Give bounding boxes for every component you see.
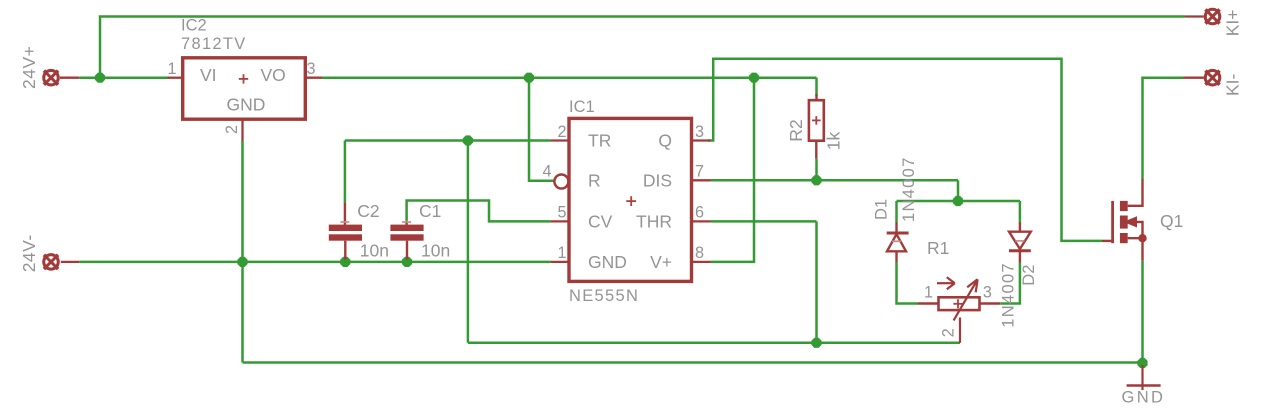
wire CV to C1 [407,201,551,222]
svg-text:VI: VI [200,65,217,85]
svg-text:2: 2 [557,123,566,141]
C1 top plate [390,225,423,231]
R1 pin 3 stub [980,302,1001,304]
wire KI- pad stub [1184,77,1204,79]
IC2 body [183,58,306,119]
svg-text:Q1: Q1 [1160,211,1183,231]
svg-text:KI-: KI- [1223,73,1243,96]
wire KI+ top rail [100,17,1185,78]
svg-text:4: 4 [542,163,551,181]
D2 origin tick [1015,240,1024,242]
C1 bottom plate [390,234,423,240]
svg-text:1: 1 [167,60,176,78]
junction THR-wiper [811,338,821,348]
C2 bottom pin [344,241,346,260]
R1 pin 1 stub [918,302,939,304]
junction 24V+ [95,73,105,83]
svg-text:3: 3 [695,123,704,141]
wire 12V rail VO to R2 [322,76,817,79]
C2 origin tick [340,221,349,223]
R2 origin cross [812,116,821,125]
svg-text:D1: D1 [873,199,891,220]
svg-text:NE555N: NE555N [569,287,639,305]
D1 origin tick [892,240,901,242]
svg-text:3: 3 [983,284,992,302]
svg-text:2: 2 [223,125,241,134]
wire bottom GND rail [243,361,1143,364]
wire THR pin 6 [711,220,817,223]
svg-text:24V-: 24V- [19,234,39,272]
R1 body [939,297,980,310]
R1 origin cross [953,299,962,308]
svg-text:V+: V+ [650,252,672,272]
wire KI- to drain [1143,78,1184,179]
transistor Q1 n-channel MOSFET [1102,179,1183,261]
wire DIS pin 7 [711,179,959,182]
wire IC2 GND down leg [241,141,244,363]
wire KI+ pad stub [1185,15,1204,17]
svg-text:GND: GND [588,252,627,272]
wire source to ground [1141,261,1144,364]
wire 24V+ pad to junction [60,77,79,79]
D1 cathode bar [887,232,909,235]
svg-text:TR: TR [588,131,611,151]
IC1 pin 5 CV stub [551,220,569,222]
wire D2 bottom to R1 pin 3 [1000,263,1020,304]
D1 cathode pin [895,222,897,233]
C1 top pin [405,221,407,226]
junction R2 bottom [811,175,821,185]
timer IC1 NE555N [542,98,710,305]
svg-text:10n: 10n [421,241,450,261]
Q1 channel blocks [1120,201,1128,211]
R2 bottom pin [815,141,817,159]
svg-text:C2: C2 [357,201,379,221]
svg-text:GND: GND [227,95,266,115]
R1 wiper arrow and pin 2 [954,279,978,343]
C2 top pin [344,202,346,225]
wire junction to IC2 pin 1 [79,76,169,79]
svg-text:7: 7 [695,163,704,181]
wire rail to reset pin 4 [529,78,554,181]
pad KI+ [1204,8,1221,25]
svg-text:1N4007: 1N4007 [900,156,918,222]
Q1 source junction dot [1138,234,1146,242]
junction C2 [340,257,350,267]
IC1 pin 3 Q stub [692,139,711,141]
wire TR-THR vertical link [467,141,470,343]
wire GND net horizontal [79,261,550,264]
wire TR pin 2 [345,139,551,142]
pad 24V- [43,254,60,271]
diode D2 1N4007 [1009,222,1031,263]
IC1 pin 8 V+ stub [692,261,711,263]
C1 bottom pin [406,241,408,260]
wire D1 top leg [895,201,898,222]
R1 adjust arrow [937,277,955,289]
IC2 pin 2 GND stub [241,119,243,141]
C2 bottom plate [329,234,362,240]
Q1 gate pin stub [1102,240,1113,242]
wire rail to V+ pin 8 [711,78,755,262]
IC1 pin 7 DIS stub [692,179,711,181]
pad 24V+ [43,69,60,86]
svg-text:C1: C1 [419,201,441,221]
svg-text:1k: 1k [824,131,844,150]
wire R2 top [815,78,818,96]
wire THR down leg [815,221,818,342]
svg-text:R2: R2 [786,119,806,141]
svg-text:1: 1 [557,244,566,262]
D1 anode pin [895,251,897,262]
svg-text:DIS: DIS [643,171,672,191]
svg-text:10n: 10n [360,241,389,261]
svg-text:KI+: KI+ [1223,10,1243,37]
svg-text:1: 1 [924,284,933,302]
svg-text:2: 2 [940,328,958,337]
svg-text:IC2: IC2 [181,17,207,35]
D2 anode pin [1019,222,1021,232]
C1 origin tick [402,221,411,223]
svg-text:VO: VO [261,65,286,85]
D2 cathode pin [1019,251,1021,263]
Q1 gate bar [1111,201,1114,243]
R2 body [809,100,824,141]
diode D1 1N4007 [887,222,909,262]
D2 anode triangle [1009,232,1031,249]
IC2 pin 3 VO stub [305,77,322,79]
svg-text:7812TV: 7812TV [181,35,247,53]
svg-text:THR: THR [636,212,672,232]
IC1 pin 2 TR stub [551,139,569,141]
svg-text:IC1: IC1 [569,98,595,116]
IC2 origin cross [239,74,248,83]
R2 top pin [815,94,817,100]
wire D2 top leg [1019,201,1022,222]
wire 24V- pad stub [61,261,79,263]
svg-text:D2: D2 [1020,265,1038,286]
IC1 body [569,118,692,281]
svg-text:24V+: 24V+ [19,46,39,89]
Q1 drain lead [1128,179,1143,206]
svg-text:R1: R1 [927,238,949,258]
svg-text:1N4007: 1N4007 [999,262,1017,328]
IC1 pin 4 inversion bubble [554,175,568,189]
junction diode top [953,196,963,206]
svg-text:R: R [588,171,601,191]
svg-text:6: 6 [695,204,704,222]
wire D1 bottom to R1 pin 1 [897,262,919,304]
C2 top plate [329,225,362,231]
svg-text:3: 3 [307,60,316,78]
junction TR node [463,135,473,145]
svg-text:CV: CV [588,212,613,232]
Q1 source lead [1128,238,1143,261]
svg-text:GND: GND [1122,389,1166,407]
IC1 origin cross [626,196,636,206]
svg-text:8: 8 [695,244,704,262]
ground symbol GND [1127,365,1161,390]
IC1 pin 6 THR stub [692,220,711,222]
ground bar [1127,384,1161,387]
pad KI- [1204,69,1221,86]
wire C2 top leg [344,141,347,203]
junction C1 [402,257,412,267]
capacitor C1 [390,201,450,261]
ground stem [1141,365,1143,390]
junction rail-V+ [749,73,759,83]
IC1 pin 1 GND stub [551,261,569,263]
D2 cathode bar [1009,249,1031,252]
svg-text:Q: Q [658,131,672,151]
wire timing node horizontal [468,342,960,345]
junction rail-reset [524,73,534,83]
IC2 pin 1 VI stub [168,77,183,79]
wire Q output to gate [708,59,1102,241]
D1 anode triangle [887,234,906,251]
trimpot R1 [918,238,1001,343]
resistor R2 [786,94,844,159]
wire D1-D2 top [897,200,1020,203]
voltage regulator IC2 7812TV [167,17,322,142]
wire R2 bottom to DIS net [815,159,818,181]
Q1 body arrow [1123,216,1137,227]
svg-text:5: 5 [557,204,566,222]
junction IC2 gnd [237,257,247,267]
wire DIS down leg [957,180,960,201]
junction gnd-source [1137,358,1147,368]
capacitor C2 [329,201,389,261]
